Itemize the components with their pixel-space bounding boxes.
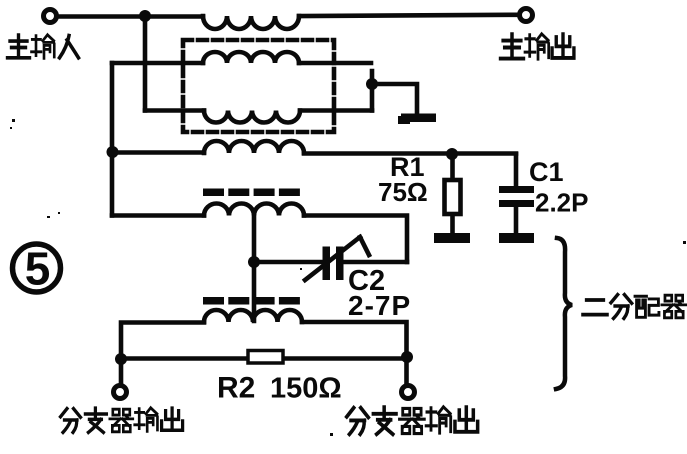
wire L5 feed (112, 213, 204, 218)
transformer dashed box (183, 40, 334, 132)
label main output (501, 34, 574, 59)
capacitor C2 plate right (336, 247, 344, 281)
capacitor C2 plate left (323, 247, 331, 281)
inductor L5 (204, 204, 304, 216)
inductor L6 (204, 310, 302, 322)
wire top rail left (58, 14, 203, 19)
junction J5 (248, 256, 260, 268)
terminal T4 branch output right (402, 386, 415, 399)
wire left bus (110, 63, 115, 216)
wire R2 row (121, 356, 407, 361)
core bars T2a (203, 189, 300, 197)
svg-text:2-7P: 2-7P (348, 290, 411, 321)
wire L3 right (300, 108, 372, 113)
wire C2 right (344, 260, 407, 265)
junction J7 (401, 351, 413, 363)
wire L4 right (304, 151, 516, 156)
core bars T3a (203, 297, 300, 305)
brace splitter (556, 238, 572, 389)
wire to L3 (145, 108, 204, 113)
capacitor C1 plate bottom (499, 200, 534, 207)
terminal T1 main input (44, 10, 57, 23)
terminal T3 branch output left (114, 386, 127, 399)
wire J1 down (143, 16, 148, 111)
label two-way splitter (583, 295, 686, 319)
wire L2 right (299, 61, 371, 66)
junction J2 (366, 78, 378, 90)
ground G1 (401, 114, 436, 123)
svg-text:C1: C1 (529, 157, 564, 187)
wire top rail right (299, 15, 518, 16)
label main input (8, 35, 79, 58)
junction J3 (107, 146, 119, 158)
C1 lead lower (514, 207, 519, 233)
junction J6 (115, 353, 127, 365)
wire C2 left (254, 260, 322, 265)
inductor L2 (203, 52, 299, 63)
resistor R1 leads (450, 154, 455, 234)
junction J4 (446, 148, 458, 160)
svg-text:2.2P: 2.2P (535, 188, 589, 218)
resistor R1 body (445, 180, 461, 214)
svg-text:150Ω: 150Ω (270, 373, 342, 405)
label branch output left (61, 408, 183, 433)
svg-text:75Ω: 75Ω (378, 177, 428, 207)
wire J2 to ground (372, 84, 417, 113)
wire L2 feed (112, 61, 203, 66)
figure number circle 5 (13, 244, 61, 292)
svg-text:R2: R2 (217, 372, 255, 405)
resistor R2 body (248, 351, 283, 364)
wire L4 feed (112, 150, 204, 155)
wire stub to J2 (370, 71, 375, 111)
capacitor C1 plate top (499, 186, 534, 193)
wire L6 left (121, 323, 204, 387)
wire L6 right (302, 322, 407, 386)
wire C1 drop (514, 154, 519, 186)
scan specks (10, 119, 686, 436)
terminal T2 main output (520, 9, 533, 22)
ground G2 (434, 233, 470, 243)
inductor L3 (204, 111, 300, 123)
svg-text:5: 5 (25, 243, 51, 295)
tap wire (252, 216, 257, 322)
ground G3 (499, 233, 534, 243)
wire L5 right (304, 216, 407, 263)
inductor L4 (204, 141, 304, 153)
label branch output right (347, 407, 478, 434)
inductor L1 (203, 16, 299, 29)
junction J1 (139, 10, 151, 22)
C2 arrow (305, 237, 369, 280)
